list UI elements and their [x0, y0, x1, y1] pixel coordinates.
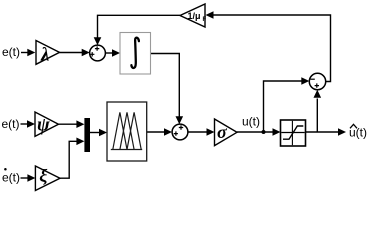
svg-text:ξ: ξ	[39, 166, 47, 187]
svg-text:e(t): e(t)	[2, 171, 20, 185]
svg-text:e(t): e(t)	[2, 45, 20, 59]
svg-text:ψ: ψ	[37, 115, 50, 136]
svg-text:λ: λ	[40, 44, 49, 65]
svg-text:u(t): u(t)	[349, 126, 367, 140]
svg-text:e(t): e(t)	[2, 117, 20, 131]
svg-text:F: F	[203, 17, 207, 23]
svg-text:1/μ: 1/μ	[188, 11, 201, 21]
svg-text:σ: σ	[217, 122, 228, 142]
svg-text:u(t): u(t)	[242, 115, 260, 129]
